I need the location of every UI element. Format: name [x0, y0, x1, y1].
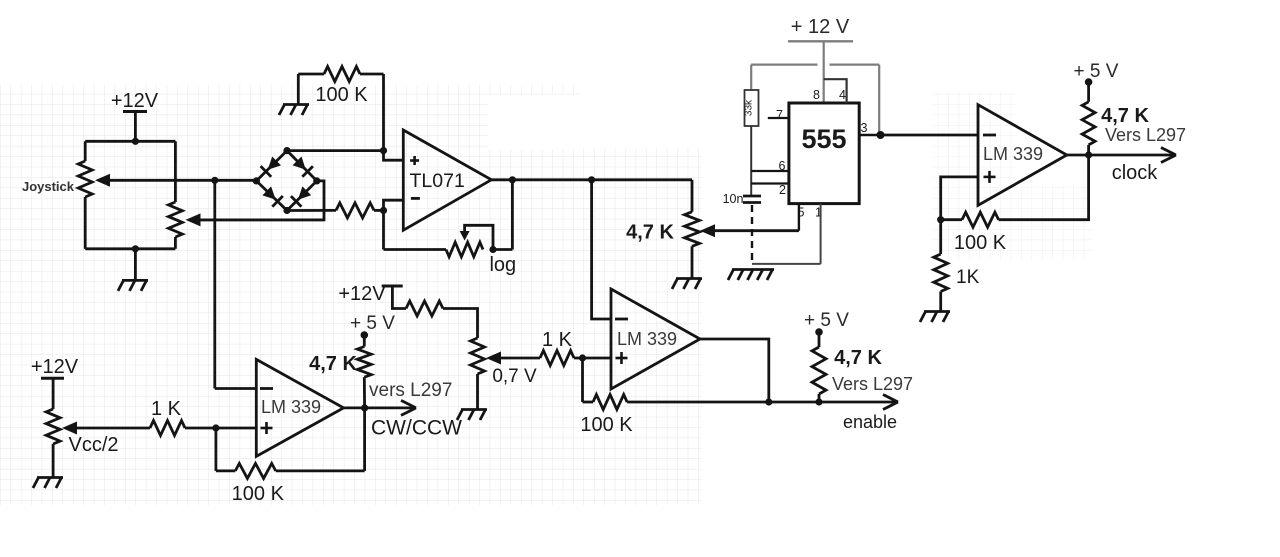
ground joystick: [122, 279, 148, 282]
wire enable feedback down: [581, 358, 584, 402]
svg-text:4,7 K: 4,7 K: [1101, 105, 1149, 127]
wire left pot top lead: [84, 141, 87, 161]
capacitor C1 10n plate1: [743, 195, 761, 198]
wire 555 out to comparator: [881, 134, 978, 137]
wire cap to ground dashed: [751, 205, 753, 264]
wire wiper to 1K (left): [75, 427, 150, 430]
node enable plus: [579, 354, 586, 361]
wire feedback to 100K (left): [216, 469, 235, 472]
wire feedback to 100K: [583, 401, 594, 404]
wire bridge bottom to resistor: [287, 209, 336, 212]
svg-text:4,7 K: 4,7 K: [834, 347, 882, 369]
wire 4,7K pot to ground: [691, 246, 694, 278]
wire output node down to comp2 minus: [592, 180, 611, 319]
node +5V terminal (clock): [1085, 78, 1093, 86]
svg-text:100 K: 100 K: [315, 84, 368, 106]
wire wiper to 1K: [499, 357, 540, 360]
svg-text:555: 555: [801, 124, 846, 154]
wire rail down to pin3 node: [878, 65, 880, 135]
clock comp plus symbol: [984, 176, 996, 179]
node clock feedback: [937, 216, 944, 223]
pin 7 stub: [768, 117, 789, 119]
clock comp minus symbol: [983, 134, 996, 137]
wire 4,7K to output: [1087, 145, 1090, 155]
wire +12V to resistor: [392, 286, 406, 309]
svg-text:10n: 10n: [723, 192, 744, 206]
wire into CW minus: [215, 387, 256, 390]
wire right pot top lead: [174, 141, 177, 202]
ground 100K: [283, 103, 309, 106]
CW comp minus symbol: [260, 387, 273, 390]
potentiometer joystick left (X axis): [78, 161, 92, 197]
resistor R10 4,7K pullup (enable): [812, 347, 826, 394]
resistor R4 4,7K pullup (clock): [1082, 102, 1095, 145]
diode D1 top-left: [268, 157, 281, 170]
svg-text:+ 5 V: + 5 V: [804, 310, 849, 331]
wire 555 ground run: [752, 263, 821, 265]
node TL071 minus input: [380, 207, 387, 214]
node +5V terminal (CW): [361, 331, 369, 339]
svg-text:1 K: 1 K: [542, 329, 573, 351]
wire 0,7V pot to ground: [476, 374, 479, 409]
bridge edge top-left: [256, 151, 287, 181]
wire 100K to output riser: [276, 469, 365, 472]
node joystick bottom: [132, 245, 139, 252]
+12V terminal bar (555): [788, 40, 853, 42]
wire right wiper run: [199, 218, 324, 221]
wire joystick bottom bar: [85, 247, 175, 250]
wire +12V rail horizontal: [751, 63, 817, 65]
wiper arrow right pot: [186, 213, 201, 226]
svg-text:0,7 V: 0,7 V: [492, 366, 537, 387]
wiper bracket log pot: [465, 225, 493, 249]
resistor R11 1 K (left): [150, 421, 185, 436]
svg-text:4,7 K: 4,7 K: [309, 353, 357, 375]
enable comp minus symbol: [615, 318, 628, 321]
node 555 output: [877, 131, 885, 139]
svg-text:4,7 K: 4,7 K: [626, 222, 674, 244]
CW comp plus symbol: [261, 427, 273, 430]
potentiometer joystick right (Y axis): [168, 202, 182, 237]
svg-text:+12V: +12V: [31, 356, 79, 378]
svg-text:6: 6: [779, 159, 786, 173]
wiper arrow 4,7K pot: [700, 224, 715, 237]
TL071 minus symbol: [411, 197, 420, 200]
arrowhead enable: [883, 395, 898, 403]
wire comp2 output: [700, 339, 769, 402]
svg-text:enable: enable: [843, 412, 897, 432]
svg-text:+ 5 V: + 5 V: [350, 313, 395, 334]
svg-text:TL071: TL071: [410, 170, 465, 192]
node output-feedback: [509, 176, 516, 183]
svg-text:CW/CCW: CW/CCW: [371, 417, 462, 440]
wire left wiper to node: [108, 179, 256, 182]
+12V terminal bar (Vcc/2): [41, 377, 64, 380]
wire minus node down: [382, 210, 385, 249]
pin 6 stub: [751, 170, 789, 172]
svg-text:33k: 33k: [744, 99, 755, 116]
wire 1K to plus input: [574, 357, 611, 360]
wire 100K left down to ground: [297, 74, 300, 104]
pin 1 wire: [820, 204, 822, 264]
capacitor C1 10n plate2: [743, 201, 761, 204]
wire TL071 output: [491, 178, 692, 181]
wire +12V to joystick top: [134, 112, 137, 142]
+12V terminal bar (joystick): [123, 110, 147, 113]
wire bridge right vertex to right wiper: [197, 181, 324, 220]
pin 4 bracket wire: [824, 79, 847, 103]
resistor R7 (0,7V divider): [406, 301, 443, 316]
wire +12V down: [823, 41, 825, 103]
wire 1K to ground: [939, 292, 942, 312]
wire 33k down to pins: [750, 126, 752, 196]
wire riser to output node: [363, 408, 366, 471]
svg-text:+12V: +12V: [338, 283, 386, 305]
svg-text:LM 339: LM 339: [261, 397, 321, 417]
wire CW output: [344, 406, 413, 409]
wire +5V to 4,7K (enable): [818, 332, 821, 347]
svg-text:Vcc/2: Vcc/2: [68, 434, 118, 456]
ground 1K: [924, 310, 950, 313]
potentiometer 0,7 V: [471, 338, 485, 374]
node bridge top vertex: [283, 147, 290, 154]
wiper arrow left pot: [95, 174, 110, 187]
svg-text:1K: 1K: [956, 267, 980, 288]
resistor R5 100K (clock): [962, 212, 999, 227]
svg-text:log: log: [489, 254, 516, 276]
resistor R13 4,7K pullup (CW): [357, 347, 371, 378]
node output to comparator 2: [588, 176, 595, 183]
wire 4,7K wiper to 555 pin5: [713, 229, 799, 232]
node left wiper junction: [211, 177, 218, 184]
svg-text:Vers L297: Vers L297: [832, 374, 913, 394]
op-amp U1 TL071: [403, 130, 491, 230]
svg-text:4: 4: [839, 88, 846, 102]
svg-text:Vers L297: Vers L297: [1105, 125, 1186, 145]
wire plus input (clock): [941, 177, 978, 220]
resistor R1 100K: [324, 67, 360, 82]
wire 4,7K to output node (CW): [363, 377, 366, 408]
node clock output: [1085, 151, 1092, 158]
resistor R2 (bridge to minus): [336, 203, 374, 218]
wire right pot bottom lead: [174, 237, 177, 249]
wire feedback left lead: [941, 218, 962, 221]
svg-text:8: 8: [813, 88, 820, 102]
svg-text:+ 5 V: + 5 V: [1074, 61, 1119, 82]
wire 100K right down to plus node: [382, 74, 385, 151]
wiper arrow log pot: [460, 231, 470, 241]
svg-text:clock: clock: [1112, 162, 1159, 184]
arrowhead CW/CCW: [401, 400, 416, 408]
node joystick top: [132, 138, 139, 145]
svg-text:LM 339: LM 339: [983, 144, 1043, 164]
pin 3 stub: [859, 134, 881, 136]
node CW plus: [212, 424, 219, 431]
ground 555: [732, 268, 774, 271]
node bridge bottom vertex: [283, 207, 290, 214]
resistor R12 100 K (left): [235, 463, 275, 478]
wire enable line: [627, 401, 896, 404]
wire clock output: [1067, 154, 1174, 157]
wire rail down to 33k: [750, 65, 752, 90]
op-amp U5 LM339 (CW/CCW): [256, 359, 343, 456]
wire node to 1K: [939, 220, 942, 254]
svg-text:+12V: +12V: [111, 90, 159, 112]
wire 1K to plus input (left): [185, 427, 256, 430]
ground Vcc/2: [37, 476, 63, 479]
+12V terminal bar (0,7V): [382, 285, 403, 288]
ground 4,7K pot: [676, 277, 702, 280]
node +5V terminal (enable): [815, 328, 823, 336]
wire joystick top bar: [85, 140, 175, 143]
potentiometer Vcc/2: [46, 409, 60, 444]
svg-text:100 K: 100 K: [954, 232, 1007, 254]
wire wiper node down to comparator minus: [213, 180, 216, 388]
diode D2 top-right: [293, 157, 306, 170]
potentiometer 4,7 K (mid): [685, 212, 700, 247]
diode D4 bottom-right: [298, 186, 311, 199]
wire into TL071 minus: [384, 200, 404, 210]
node TL071 plus input: [380, 147, 387, 154]
wire +5V to 4,7K: [1087, 82, 1090, 102]
bridge edge bottom-right: [287, 181, 317, 211]
wire joystick bottom to ground: [134, 249, 137, 280]
wire 4,7K to enable line: [818, 394, 821, 402]
wire feedback vertical: [511, 180, 514, 250]
wiper arrow 0,7V pot: [486, 352, 501, 365]
wire +12V to Vcc2 pot: [52, 378, 55, 409]
resistor R8 1 K (enable): [540, 351, 574, 366]
wire feedback right: [999, 155, 1089, 220]
node CW output: [361, 404, 368, 411]
node bridge right vertex: [313, 177, 320, 184]
node enable pullup: [815, 398, 822, 405]
wire resistor to pot: [443, 309, 478, 339]
resistor R3 33k box: [745, 90, 759, 126]
svg-text:LM 339: LM 339: [617, 329, 677, 349]
wire log pot to output vertical: [493, 248, 512, 251]
wire bridge top to opamp node: [287, 149, 384, 152]
wire CW feedback down: [214, 428, 217, 471]
wire resistor to minus node: [374, 209, 384, 212]
svg-text:3: 3: [861, 121, 868, 135]
wire 100K right lead: [360, 73, 384, 76]
svg-text:7: 7: [776, 108, 783, 122]
wire left pot bottom lead: [84, 197, 87, 249]
wire +5V to 4,7K (CW): [363, 335, 366, 347]
resistor R9 100 K (enable): [593, 395, 627, 410]
op-amp U4 LM339 (enable): [611, 289, 700, 389]
bridge edge top-right: [287, 151, 317, 181]
arrowhead clock: [1161, 148, 1176, 156]
op-amp U3 LM339 (clock): [978, 105, 1067, 206]
wire 100K left lead: [298, 73, 324, 76]
node enable output: [765, 398, 772, 405]
wire +12V rail horizontal b: [830, 63, 880, 65]
node bridge left vertex: [253, 177, 260, 184]
resistor R6 1K: [934, 254, 948, 291]
wire Vcc2 pot to ground: [52, 444, 55, 477]
TL071 plus symbol: [410, 159, 419, 162]
diode D3 bottom-left: [262, 186, 275, 199]
enable comp plus symbol: [616, 357, 628, 360]
svg-text:1 K: 1 K: [151, 398, 182, 420]
wiper arrow Vcc/2: [62, 422, 77, 435]
svg-text:Joystick: Joystick: [22, 179, 75, 194]
svg-text:2: 2: [779, 183, 786, 197]
svg-text:+ 12 V: + 12 V: [791, 16, 850, 38]
svg-text:100 K: 100 K: [232, 483, 285, 505]
wire down to log pot: [384, 248, 447, 251]
potentiometer log: [446, 242, 483, 257]
ground 0,7V pot: [461, 408, 487, 411]
pin 2 stub: [751, 182, 789, 184]
node log pot right: [489, 246, 496, 253]
IC U2 555 box: [789, 103, 859, 204]
pin 5 wire: [798, 204, 800, 231]
svg-text:vers L297: vers L297: [369, 380, 452, 401]
bridge edge bottom-left: [256, 181, 287, 211]
wire into TL071 plus: [384, 151, 404, 161]
wire output corner down to pot: [691, 180, 694, 212]
svg-text:100 K: 100 K: [580, 414, 633, 436]
